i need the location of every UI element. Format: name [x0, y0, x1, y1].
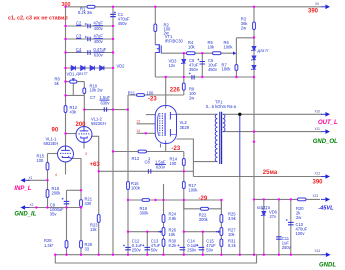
svg-text:R13: R13: [132, 156, 140, 161]
resistor R11: [137, 94, 145, 97]
svg-text:C7: C7: [90, 95, 96, 100]
wire VD3 column: [183, 53, 185, 77]
junction dots C7 row: [83, 108, 85, 110]
capacitor C14: [177, 244, 185, 249]
wire R24 chain column: [163, 200, 165, 255]
wire R25 chain column: [220, 200, 222, 255]
wire C11 column: [278, 199, 280, 254]
wire VL2 grid1 stub: [146, 114, 156, 116]
svg-text:X12: X12: [315, 171, 321, 175]
wire C9 R28 column: [66, 190, 68, 254]
svg-text:X14: X14: [315, 249, 321, 253]
wire VL1-2 heater stub: [83, 142, 85, 148]
svg-text:Д817Г: Д817Г: [257, 48, 270, 53]
resistor R22: [201, 207, 209, 210]
resistor R13: [138, 150, 147, 153]
wire C7 row: [84, 109, 128, 111]
svg-text:C8: C8: [145, 159, 151, 164]
wire A mid wiper row: [128, 231, 161, 233]
wire C5 column: [201, 53, 203, 77]
potentiometer R8: [70, 80, 77, 83]
svg-text:GND_IL: GND_IL: [14, 212, 36, 218]
resistor R18: [46, 190, 49, 198]
svg-text:C3: C3: [76, 34, 82, 39]
svg-text:GNDL: GNDL: [319, 262, 336, 268]
svg-text:GND_OL: GND_OL: [313, 139, 338, 145]
svg-text:6922EH: 6922EH: [44, 141, 59, 146]
resistor R5: [213, 52, 222, 55]
svg-text:+63: +63: [90, 162, 101, 168]
capacitor C15: [196, 244, 204, 249]
svg-text:12v: 12v: [169, 63, 177, 68]
capacitor C13: [142, 244, 150, 249]
resistor R2: [154, 24, 157, 32]
resistor R15: [46, 163, 49, 171]
svg-text:33: 33: [85, 247, 90, 252]
wire rail 53 screen supply: [161, 52, 233, 54]
svg-text:250v: 250v: [132, 248, 142, 253]
wire main bus x=113 vertical: [112, 7, 114, 255]
wire bottom ground rail: [55, 254, 322, 256]
wire X2 ground row: [28, 207, 81, 209]
zener VD6: [261, 208, 267, 216]
svg-text:400v: 400v: [94, 39, 104, 44]
transformer TR1 core: [220, 112, 222, 164]
svg-text:C4: C4: [76, 47, 82, 52]
svg-text:400v: 400v: [94, 26, 104, 31]
svg-text:X2: X2: [30, 203, 34, 207]
resistor R30: [162, 239, 165, 247]
wire VL2 plate to transformer primary: [177, 113, 218, 115]
svg-text:-23: -23: [148, 97, 157, 103]
wire cathode branch to C9: [67, 189, 82, 191]
wire top B+ rail to X5: [66, 6, 322, 8]
capacitor C7: [104, 107, 106, 111]
arrow rail53 to gate node: [233, 52, 236, 55]
svg-text:X13: X13: [313, 194, 319, 198]
junction dots diode row: [64, 67, 66, 69]
svg-text:10k 2w: 10k 2w: [90, 88, 103, 93]
svg-text:35v: 35v: [50, 212, 58, 217]
svg-text:43k: 43k: [70, 109, 78, 114]
junction dots bottom rail: [54, 254, 56, 256]
svg-text:450v: 450v: [208, 67, 218, 72]
wire diode row: [66, 67, 114, 69]
svg-text:90: 90: [52, 128, 59, 134]
svg-text:300k: 300k: [199, 217, 209, 222]
svg-text:100k: 100k: [189, 187, 199, 192]
wire VD6 column: [263, 199, 265, 254]
wire X1 input: [28, 179, 48, 181]
junction dots C8 row: [98, 170, 100, 172]
capacitor C6: [189, 72, 194, 79]
resistor R9: [182, 83, 185, 90]
svg-text:X10: X10: [315, 110, 321, 114]
transformer TR1 primary: [215, 114, 217, 161]
junction dots rail200: [127, 199, 129, 201]
tetrode VL2: [155, 106, 176, 144]
svg-text:630v: 630v: [101, 100, 111, 105]
svg-text:2w: 2w: [241, 25, 246, 30]
zener VD3: [181, 60, 186, 64]
svg-text:430: 430: [85, 201, 93, 206]
resistor R12: [64, 106, 67, 113]
svg-text:X1: X1: [29, 176, 33, 180]
svg-text:OUT_L: OUT_L: [318, 120, 338, 126]
svg-text:47uF: 47uF: [94, 21, 104, 26]
svg-text:-29: -29: [199, 196, 208, 202]
svg-text:100: 100: [37, 158, 45, 163]
svg-text:50v: 50v: [151, 248, 159, 253]
svg-text:R11: R11: [128, 91, 136, 96]
svg-text:14: 14: [136, 129, 140, 133]
wire VL2 cathode stub: [160, 144, 162, 148]
resistor R4: [187, 52, 196, 55]
svg-text:200: 200: [76, 122, 87, 128]
port arrow X1: [21, 178, 26, 183]
svg-text:IRFIBC30: IRFIBC30: [165, 38, 184, 43]
triode VL1-1: [58, 146, 74, 162]
svg-text:4: 4: [55, 173, 57, 177]
svg-text:300k: 300k: [140, 210, 150, 215]
svg-text:100: 100: [147, 91, 155, 96]
svg-text:VD2: VD2: [117, 63, 126, 68]
wire VT1 drain column: [154, 7, 156, 45]
potentiometer R27: [220, 228, 223, 236]
svg-text:3E29: 3E29: [180, 125, 190, 130]
svg-text:INP_L: INP_L: [14, 186, 31, 192]
port arrow X12: [325, 174, 330, 179]
resistor R20: [298, 198, 307, 201]
wire R8 row: [66, 81, 85, 83]
wire C3 row: [66, 38, 114, 40]
port arrow X2: [21, 205, 26, 210]
svg-text:10k: 10k: [169, 232, 177, 237]
wire X12 blue feed: [239, 114, 241, 176]
junction dots rail53: [183, 52, 185, 54]
svg-text:630v: 630v: [156, 165, 166, 170]
svg-text:250v: 250v: [187, 248, 197, 253]
resistor R14: [182, 159, 185, 166]
svg-text:X5: X5: [315, 2, 319, 6]
svg-text:630v: 630v: [94, 53, 104, 58]
capacitor C4: [88, 50, 90, 54]
resistor R1: [87, 5, 95, 8]
wire R11 screen row: [128, 94, 184, 96]
wire secondary bottom to X11: [223, 131, 322, 133]
wire VT1 source down: [154, 53, 156, 78]
junction dots top rail: [64, 6, 66, 8]
wire R7 column from zener node: [236, 38, 254, 77]
junction dots X13 row: [263, 198, 265, 200]
wire secondary top to X10: [223, 113, 322, 115]
wire R24 chain riser: [163, 184, 165, 200]
svg-text:8.2k: 8.2k: [228, 243, 237, 248]
wire VL1-1 heater stub: [65, 162, 67, 175]
zener stack VD5b: [251, 66, 256, 70]
port arrow X13: [325, 197, 330, 202]
resistor R25: [220, 215, 223, 223]
wire column B R14 R17 C14: [183, 152, 185, 255]
svg-text:100k: 100k: [224, 44, 234, 49]
junction dots wiper rows: [127, 231, 129, 233]
svg-text:350v: 350v: [189, 67, 199, 72]
svg-text:1.5uF: 1.5uF: [100, 95, 111, 100]
port arrow X10: [325, 112, 330, 117]
wire C10 column: [290, 199, 292, 254]
port arrow X11: [325, 129, 330, 134]
zener stack VD4: [251, 47, 256, 51]
resistor R17: [182, 182, 185, 189]
svg-text:1.3k*: 1.3k*: [44, 243, 54, 248]
wire bias rail 200: [128, 199, 221, 201]
junction dot cathode branch: [80, 189, 82, 191]
wire R8 wiper: [66, 83, 85, 95]
capacitor C11: [276, 237, 282, 239]
junction dots rail77: [165, 76, 167, 78]
wire C13 column: [146, 232, 148, 255]
svg-text:2w: 2w: [189, 95, 194, 100]
capacitor C3: [85, 36, 90, 41]
wire R13 grid row: [113, 151, 184, 153]
wire bottom outer loop: [55, 255, 256, 263]
diode VD1 string (4 diodes): [71, 66, 104, 71]
wire R10 column: [83, 82, 85, 127]
transformer TR1 secondary: [223, 114, 225, 131]
capacitor C8: [148, 169, 150, 173]
wire C2 row: [66, 25, 114, 27]
wire X12 row: [193, 176, 321, 178]
resistor R7: [235, 65, 238, 71]
svg-text:250v: 250v: [282, 245, 292, 250]
wire column A1 R16 C12: [127, 95, 129, 255]
svg-text:5...6 kOhm Ra-a: 5...6 kOhm Ra-a: [206, 104, 237, 109]
svg-text:0.47uF: 0.47uF: [94, 47, 107, 52]
svg-text:10k: 10k: [228, 232, 236, 237]
junction dot heater stub: [145, 132, 147, 134]
svg-text:100k: 100k: [131, 185, 141, 190]
svg-text:100v: 100v: [296, 231, 306, 236]
svg-text:10k: 10k: [208, 44, 216, 49]
wire VL1-2 cathode to +63 node: [91, 136, 99, 254]
svg-text:с1, с2, с3 их не ставил: с1, с2, с3 их не ставил: [8, 15, 68, 21]
svg-text:390: 390: [313, 179, 324, 185]
resistor R10: [83, 88, 86, 94]
junction dots left bus: [64, 80, 66, 82]
wire VL2 heater stub 13: [137, 123, 156, 125]
svg-text:C2: C2: [76, 21, 82, 26]
resistor R24: [162, 215, 165, 223]
svg-text:6922EH: 6922EH: [91, 121, 106, 126]
resistor R19: [142, 199, 150, 202]
wire VL1-1 cathode to R21 column: [72, 159, 81, 255]
svg-text:13: 13: [136, 119, 140, 123]
svg-text:8.2k 3w: 8.2k 3w: [78, 10, 92, 15]
capacitor C12: [123, 244, 131, 249]
svg-text:Д817Г: Д817Г: [75, 71, 88, 76]
wire VL2 grid lead bottom: [165, 144, 167, 152]
capacitor C1: [110, 11, 116, 16]
svg-text:450v: 450v: [118, 21, 128, 26]
wire X13 row -45V: [254, 198, 320, 200]
svg-text:-45VL: -45VL: [318, 205, 334, 211]
capacitor C9: [62, 198, 70, 204]
wire VL2 heater stub 14: [137, 132, 156, 134]
svg-text:10k: 10k: [188, 44, 196, 49]
resistor R29: [80, 241, 83, 249]
wire C4 row: [66, 52, 114, 54]
wire R9 column: [183, 77, 185, 95]
junction dot X1 node: [46, 179, 48, 181]
svg-text:300: 300: [62, 2, 71, 8]
svg-text:VD1: VD1: [67, 72, 76, 77]
junction dots X2 row: [35, 206, 37, 208]
zener stack VD5: [251, 56, 256, 60]
resistor R21: [80, 200, 83, 207]
svg-text:50v: 50v: [206, 248, 214, 253]
svg-text:3: 3: [85, 152, 87, 156]
wire R15 R18 column: [47, 154, 49, 208]
resistor R23: [97, 215, 100, 223]
svg-text:226: 226: [170, 87, 181, 93]
junction dot R13 row: [112, 150, 114, 152]
wire R3 zener bus x=254: [253, 7, 255, 255]
wire VL1-1 grid lead: [48, 153, 58, 155]
svg-text:47uF: 47uF: [94, 34, 104, 39]
svg-text:3.9k: 3.9k: [169, 216, 178, 221]
port arrow X5: [325, 5, 330, 10]
triode VL1-2: [76, 127, 92, 143]
svg-text:180k: 180k: [222, 67, 232, 72]
mosfet VT1: [155, 44, 161, 53]
wire C8 coupling row: [99, 170, 194, 172]
svg-text:2w: 2w: [296, 215, 301, 220]
capacitor C5: [197, 59, 205, 65]
wire rail 77: [155, 76, 254, 78]
black probe dot: [238, 113, 241, 116]
wire feed column to ground rail: [239, 177, 241, 255]
svg-text:1.5uF: 1.5uF: [155, 159, 166, 164]
wire R22 U loop: [184, 200, 222, 209]
wire VL2 plate top lead: [165, 77, 167, 106]
svg-text:8.2k: 8.2k: [169, 243, 178, 248]
svg-text:X11: X11: [315, 127, 321, 131]
junction dots right bus: [253, 36, 255, 38]
svg-text:3.9k: 3.9k: [228, 216, 237, 221]
svg-text:25ма: 25ма: [263, 170, 278, 176]
capacitor C10: [286, 219, 294, 225]
svg-text:13k: 13k: [90, 227, 98, 232]
junction dots cap rows: [64, 25, 66, 27]
wire C15 column: [202, 232, 204, 255]
wire B mid wiper row: [184, 231, 219, 233]
wire primary bottom link: [177, 139, 218, 177]
wire left bus vertical: [65, 7, 67, 146]
wire VL1-2 grid lead: [66, 133, 77, 135]
capacitor C2: [85, 23, 90, 28]
resistor R28: [65, 241, 68, 249]
potentiometer R26: [162, 228, 165, 236]
svg-text:200k: 200k: [52, 190, 62, 195]
svg-text:-23: -23: [172, 146, 181, 152]
svg-text:27v: 27v: [270, 214, 278, 219]
port arrow X14: [326, 252, 331, 257]
resistor R3: [253, 22, 256, 30]
resistor R16: [127, 182, 130, 190]
svg-text:390: 390: [308, 9, 319, 15]
svg-text:100: 100: [170, 161, 178, 166]
resistor R31: [220, 239, 223, 247]
